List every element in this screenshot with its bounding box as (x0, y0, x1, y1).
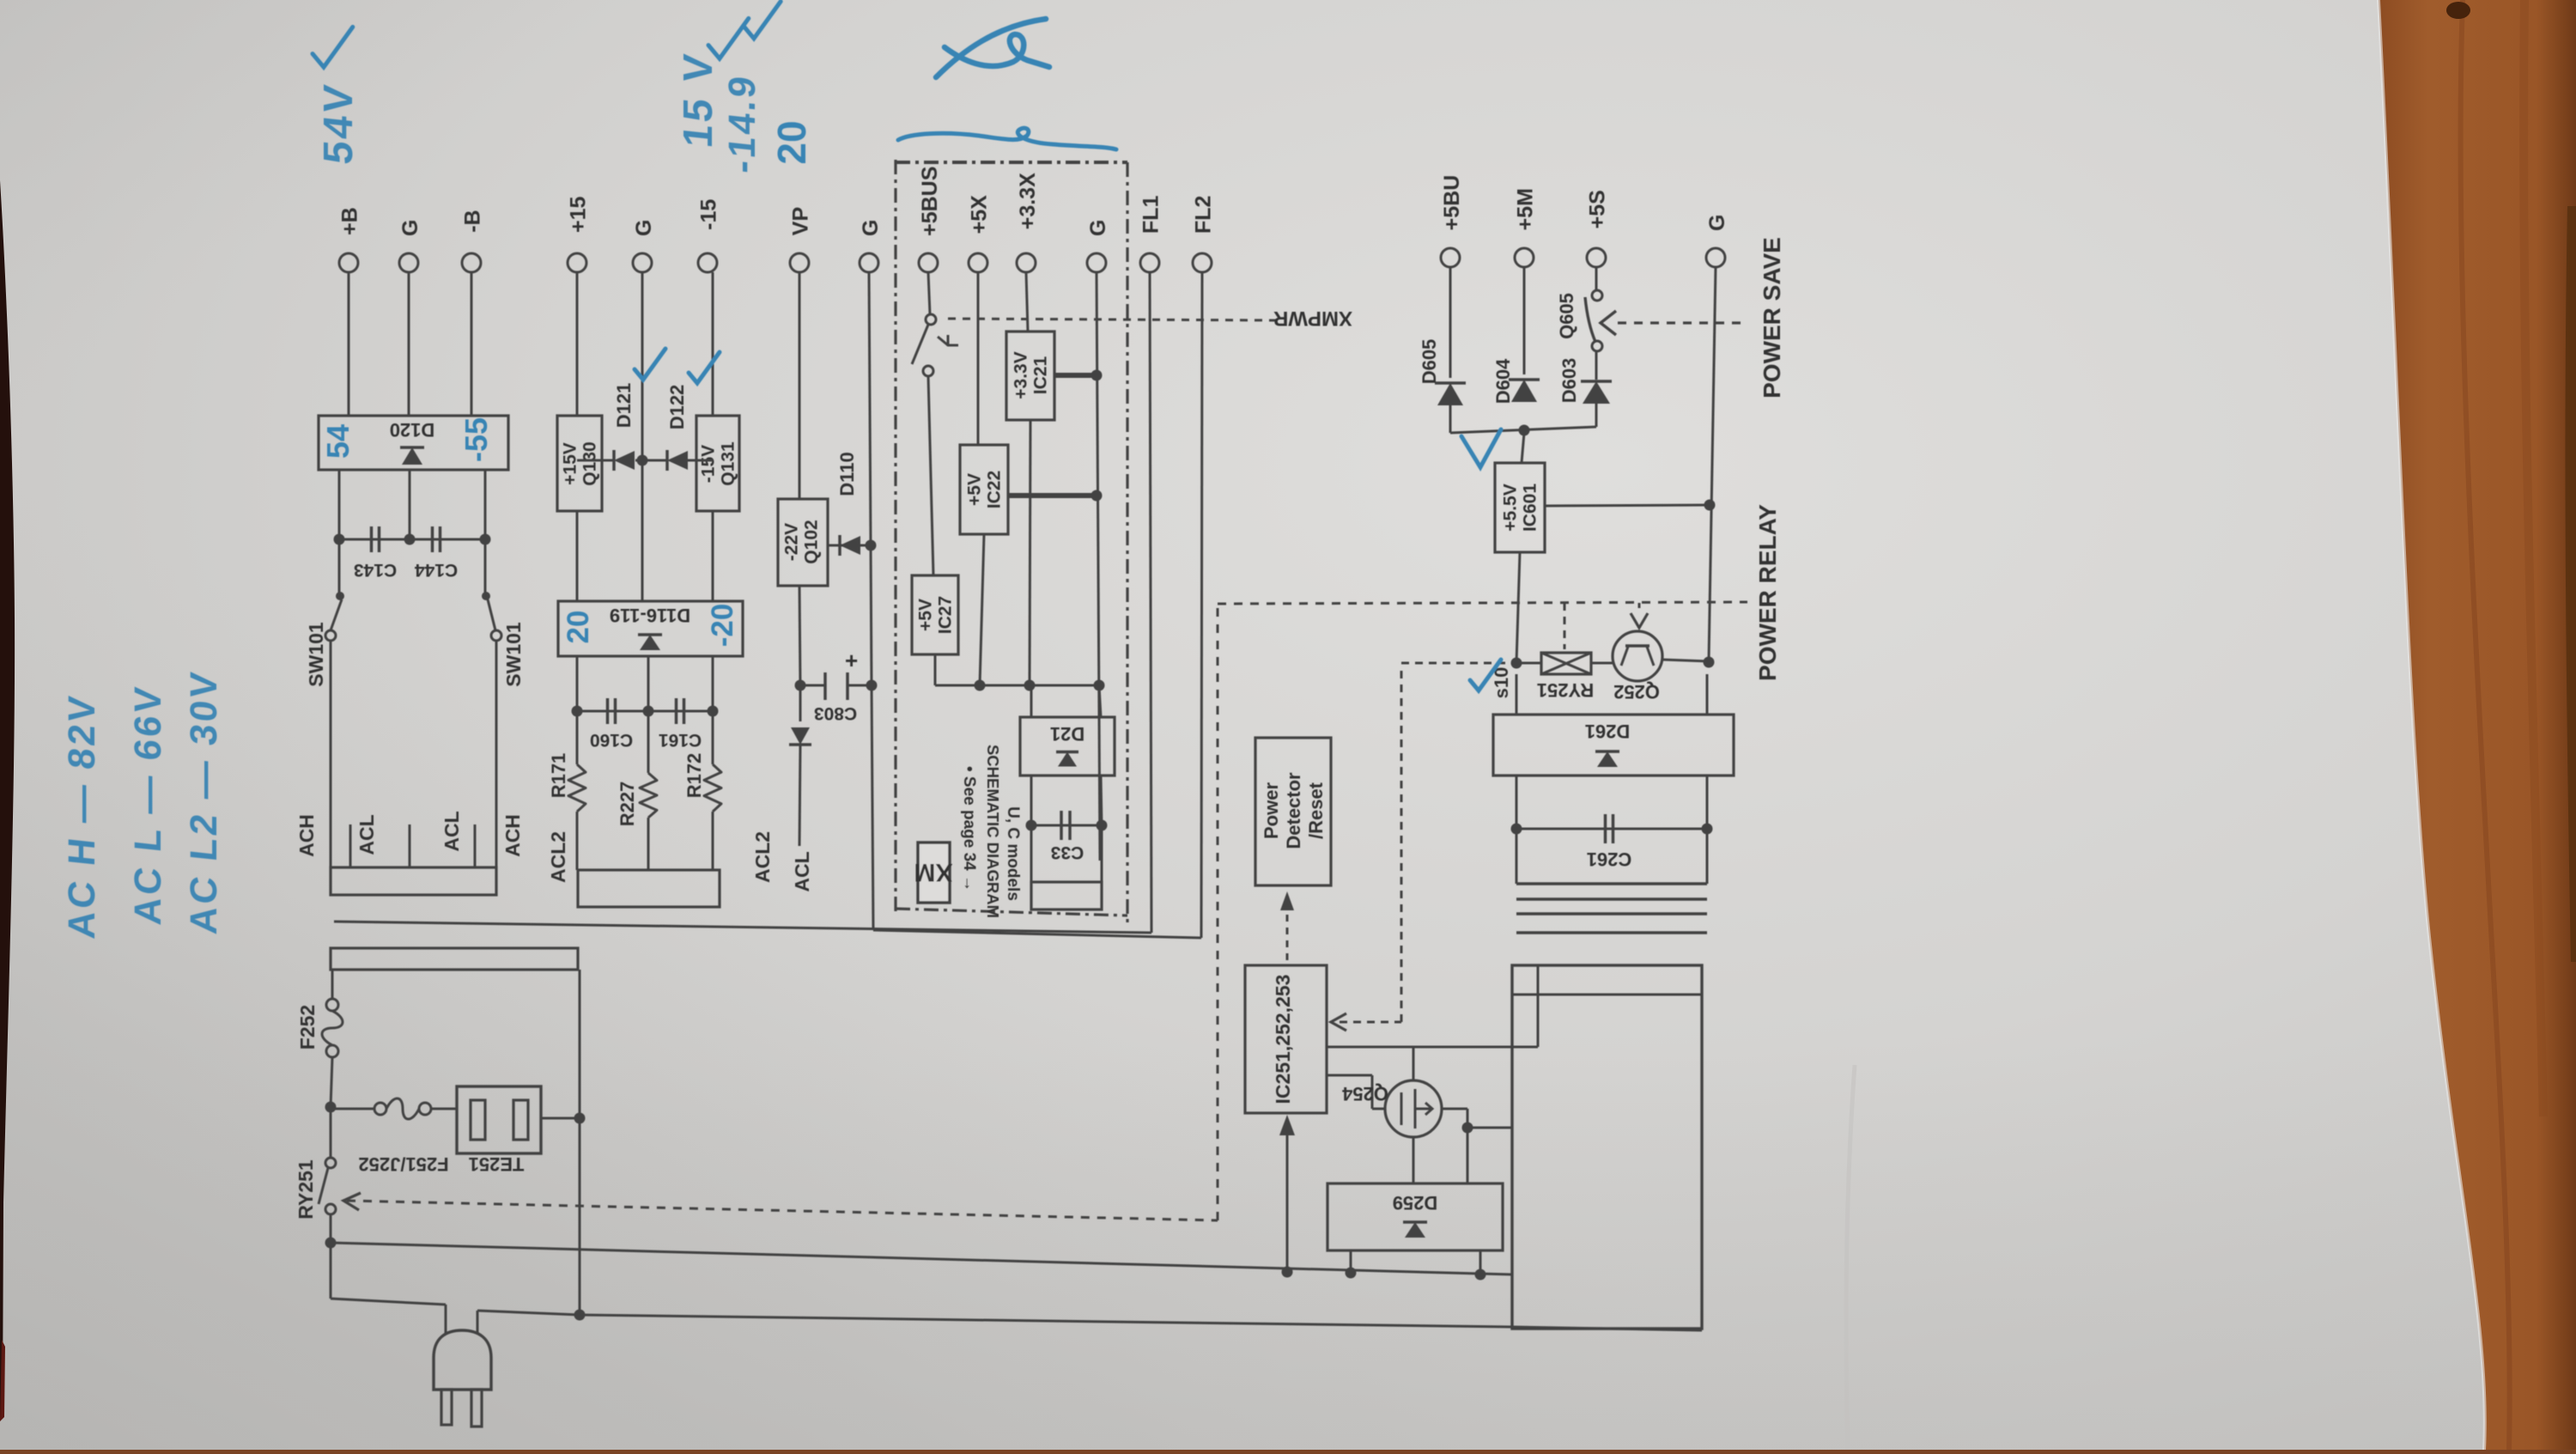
wire IC21 down to bus (1030, 420, 1030, 685)
svg-text:D122: D122 (666, 385, 688, 430)
svg-text:D120: D120 (390, 419, 435, 441)
svg-text:Detector: Detector (1283, 772, 1304, 849)
svg-text:XMPWR: XMPWR (1273, 307, 1352, 330)
capacitor bus C160 C161 (577, 710, 713, 713)
svg-text:20: 20 (769, 120, 814, 164)
handwritten check above 54V (313, 27, 353, 67)
svg-text:+B: +B (338, 207, 362, 235)
svg-text:C33: C33 (1051, 843, 1084, 862)
G line inside XM (1097, 272, 1100, 861)
svg-text:15 V: 15 V (675, 50, 721, 149)
wire +5X to IC22 (977, 272, 980, 445)
bus wire at IC27 IC22 IC21 outputs (935, 684, 1099, 687)
terminal +5BUS (919, 253, 938, 272)
wire IC22 to bus (980, 534, 984, 685)
svg-text:+5V: +5V (916, 599, 936, 631)
svg-text:ACH: ACH (501, 814, 524, 857)
svg-text:Q131: Q131 (719, 441, 738, 486)
relay switch RY251 (330, 1107, 332, 1158)
arrow from AC rail into IC251 (1286, 1118, 1289, 1272)
terminal +5M (1515, 248, 1534, 267)
resistor R171 (576, 711, 579, 764)
handwritten flourish stroke 2 (898, 128, 1116, 149)
terminal G (860, 253, 878, 272)
riser to lower rail (579, 1118, 581, 1315)
capacitor C160 (606, 698, 610, 724)
svg-text:+5S: +5S (1585, 190, 1609, 228)
svg-text:-22V: -22V (782, 523, 802, 561)
svg-text:Q254: Q254 (1341, 1083, 1388, 1104)
svg-text:SCHEMATIC DIAGRAM: SCHEMATIC DIAGRAM (984, 745, 1002, 918)
svg-text:D259: D259 (1393, 1192, 1438, 1214)
svg-text:-15V: -15V (699, 445, 719, 483)
wire FL1 down (1150, 272, 1151, 933)
diode D122 (667, 451, 688, 470)
XM boundary dash-dot left edge (894, 160, 896, 915)
thick link IC21 to G (1054, 373, 1097, 378)
long AC rail B into transformer (580, 1315, 1512, 1327)
wire Q130 to D116-119 box (576, 511, 579, 601)
svg-text:+3.3V: +3.3V (1012, 351, 1031, 398)
wire down to Q254 top (1413, 1047, 1415, 1080)
svg-text:C261: C261 (1587, 849, 1632, 870)
wire bus to D21 box left (1030, 685, 1033, 717)
wire relay row (1516, 662, 1541, 665)
svg-text:POWER SAVE: POWER SAVE (1759, 237, 1785, 398)
svg-text:20: 20 (562, 611, 595, 644)
wire IC27 to bus (934, 654, 937, 685)
svg-text:/Reset: /Reset (1305, 782, 1327, 839)
box Power Detector Reset (1255, 738, 1331, 885)
handwritten check above -14.9 (744, 2, 781, 39)
switch Q605 (1592, 290, 1602, 301)
terminal FL2 (1193, 253, 1212, 272)
rectifier box D261 (1493, 715, 1734, 776)
svg-text:D605: D605 (1419, 339, 1440, 385)
svg-text:D604: D604 (1492, 358, 1514, 404)
wire D603 down (1595, 404, 1598, 427)
wire F252 to junction (331, 1057, 332, 1107)
svg-text:U, C models: U, C models (1004, 806, 1022, 901)
wire RY251 to rail A (330, 1214, 332, 1243)
svg-text:G: G (632, 220, 656, 236)
terminal +5X (969, 253, 987, 272)
wire G to D21 box right (1099, 685, 1101, 717)
transistor Q252 (1613, 631, 1662, 681)
wood grain streaks (2461, 0, 2510, 1450)
svg-text:G: G (398, 220, 422, 236)
transformer inner line (1512, 994, 1702, 996)
svg-text:FL2: FL2 (1191, 196, 1215, 234)
svg-text:AC H — 82V: AC H — 82V (61, 692, 103, 940)
wire switch to IC27 (928, 376, 933, 575)
junction node at C143 left (334, 534, 345, 545)
svg-text:TE251: TE251 (469, 1153, 525, 1175)
electrolytic capacitor C803 (795, 680, 806, 691)
svg-text:+15V: +15V (561, 442, 580, 485)
wire IC601 output down to relay (1516, 552, 1520, 663)
long AC rail A into transformer (331, 1243, 1512, 1275)
dark table edge strip far right (2565, 206, 2576, 962)
svg-text:D603: D603 (1558, 358, 1580, 404)
svg-text:G: G (1705, 215, 1729, 231)
diode on ACL feed below C803 (799, 685, 802, 721)
wire switch to D603 (1595, 351, 1598, 380)
svg-text:D21: D21 (1050, 723, 1084, 745)
terminal FL1 (1140, 253, 1159, 272)
svg-text:C160: C160 (590, 730, 633, 750)
svg-text:R171: R171 (548, 753, 569, 799)
ACL feed wires into filter (349, 824, 352, 867)
terminal +B (339, 253, 358, 272)
wire G to D120 box (408, 272, 410, 416)
wire SW101 pole A to AC inlet filter (330, 641, 332, 867)
arrow into Q252 from dashed (1631, 613, 1648, 628)
wires D21 box to C33 (1030, 776, 1033, 825)
switch SW101 pole A (338, 539, 341, 593)
handwritten check for D122 (689, 352, 720, 383)
svg-text:Q252: Q252 (1613, 681, 1660, 703)
wires D261 to C261 (1516, 776, 1518, 829)
capacitor C261 bus (1516, 828, 1707, 830)
diode D603 (1583, 381, 1610, 404)
svg-text:SW101: SW101 (502, 622, 525, 687)
regulator box IC22 +5V (960, 445, 1008, 534)
svg-text:+5BUS: +5BUS (918, 167, 942, 236)
svg-text:F252: F252 (296, 1005, 319, 1049)
wires C261 to transformer windings (1516, 829, 1518, 884)
svg-text:54V: 54V (315, 81, 361, 167)
diode box D259 (1327, 1183, 1503, 1250)
XMPWR dashed control line (948, 319, 1277, 320)
wire Q102 down to C803 level (799, 586, 800, 685)
terminal +3.3X (1017, 253, 1036, 272)
svg-text:+15: +15 (566, 196, 590, 233)
wire IC251 to Q254 drain line (1327, 1046, 1538, 1049)
handwritten check at IC601 (1461, 429, 1501, 467)
svg-text:R172: R172 (683, 753, 705, 799)
junction node at C144 right (480, 534, 491, 545)
fuse F251 J252 horizontal (331, 1108, 374, 1110)
svg-text:C144: C144 (415, 560, 459, 580)
diode D604 (1511, 380, 1537, 402)
wire G line to bottom rail (872, 685, 873, 930)
wire +5M to IC601 (1522, 433, 1524, 463)
dashed feedback into IC251 right edge (1340, 1021, 1401, 1024)
svg-text:D116-119: D116-119 (610, 605, 690, 626)
protection box D21 (1020, 717, 1115, 776)
XM label box (918, 843, 950, 903)
long AC rail to FL2 (873, 930, 1201, 938)
regulator box IC21 +3.3V (1006, 332, 1054, 420)
wire Q254 right to junction (1442, 1108, 1467, 1110)
svg-text:RY251: RY251 (1537, 679, 1594, 701)
box IC251 252 253 (1245, 965, 1327, 1113)
svg-text:ACH: ACH (295, 814, 318, 857)
svg-text:C143: C143 (354, 560, 397, 580)
dashed branch to Q252 (1638, 603, 1641, 611)
svg-text:Power: Power (1261, 782, 1282, 839)
diode D110 on stub to G line (828, 544, 872, 547)
capacitor C143 (370, 526, 374, 552)
wire inlet to fuse F252 (331, 970, 334, 999)
connector box under R227 (578, 870, 720, 907)
wire D120 box to C144 junction (G) (409, 470, 411, 539)
wire +5BUS to switch (928, 272, 930, 314)
terminal +5S (1587, 248, 1606, 267)
svg-text:Q102: Q102 (802, 520, 822, 563)
wire VP to Q102 (799, 272, 801, 499)
svg-text:C803: C803 (814, 703, 857, 723)
svg-text:VP: VP (789, 207, 813, 235)
svg-text:54: 54 (320, 424, 355, 459)
XM boundary dash-dot bottom edge (896, 909, 1127, 916)
terminal -B (462, 253, 481, 272)
connector box D120 (319, 416, 508, 470)
wire plug right to rail B (477, 1311, 479, 1333)
svg-text:R227: R227 (617, 782, 638, 827)
regulator box Q131 -15V (696, 416, 739, 511)
svg-text:Q605: Q605 (1556, 293, 1577, 339)
wire +15 to Q130 (576, 272, 579, 416)
paper crease bottom right (1846, 1065, 1855, 1450)
AC plug (434, 1330, 491, 1390)
svg-text:D121: D121 (613, 383, 635, 429)
G line right (1709, 267, 1716, 661)
terminal G (1087, 253, 1106, 272)
svg-text:F251/J252: F251/J252 (358, 1153, 448, 1175)
diode D120 symbol (402, 447, 422, 465)
regulator box Q130 +15V (557, 416, 602, 511)
svg-text:-20: -20 (706, 604, 739, 648)
wooden desk visible at right edge (2379, 0, 2576, 1450)
long AC rail to FL1 (334, 922, 1151, 933)
wire D120 box to SW101 right pole (484, 470, 487, 539)
svg-text:+5X: +5X (967, 195, 991, 234)
svg-text:IC251,252,253: IC251,252,253 (1272, 975, 1294, 1104)
svg-text:IC601: IC601 (1521, 484, 1540, 532)
svg-text:ACL: ACL (791, 851, 813, 891)
wire SW101 pole B to AC inlet filter (495, 641, 498, 867)
wire G to diode junction (641, 272, 644, 601)
capacitor bus wire C143 C144 (339, 538, 485, 541)
svg-text:-15: -15 (696, 199, 720, 230)
paper edge highlight right (2379, 0, 2485, 1450)
wire +5BU to D605 (1449, 267, 1452, 378)
handwritten flourish stroke 1 (936, 19, 1049, 77)
svg-text:IC27: IC27 (936, 596, 956, 634)
dark desk sliver left edge (0, 180, 15, 1421)
wire junction to transformer (1467, 1127, 1512, 1129)
wire G line upper (869, 272, 871, 545)
svg-text:Q130: Q130 (580, 441, 600, 485)
rectifier box D116-119 (558, 601, 743, 656)
transformer winding bars (1516, 882, 1707, 885)
junction dots on G line (1091, 370, 1103, 381)
svg-text:+5BU: +5BU (1440, 175, 1464, 231)
svg-text:• See page 34 →: • See page 34 → (960, 766, 978, 891)
AC line filter block (331, 867, 496, 895)
diode D605 (1437, 383, 1463, 405)
riser from AC inlet right (579, 970, 581, 1118)
fuse F252 (326, 999, 338, 1011)
svg-text:G: G (859, 220, 883, 236)
wire -15 to Q131 (712, 272, 714, 416)
svg-text:RY251: RY251 (295, 1159, 317, 1220)
tap IC601 to G line (1545, 505, 1710, 506)
svg-text:ACL: ACL (355, 814, 378, 855)
wire G line to C803 (871, 545, 872, 685)
dashed arrow at RY251 (343, 1193, 361, 1210)
capacitor C33 (1031, 824, 1102, 827)
terminal -15 (698, 253, 717, 272)
terminal +15 (568, 253, 586, 272)
switch SW101 pole B (484, 539, 487, 593)
svg-text:IC21: IC21 (1031, 356, 1051, 395)
stub D259 to rail left (1350, 1250, 1352, 1273)
svg-text:ACL2: ACL2 (547, 831, 569, 883)
svg-text:ACL: ACL (440, 811, 463, 851)
svg-text:D261: D261 (1585, 721, 1631, 742)
svg-text:+5M: +5M (1513, 188, 1537, 230)
svg-text:SW101: SW101 (305, 622, 327, 687)
terminal +5BU (1441, 248, 1460, 267)
resistor R172 (712, 711, 714, 764)
thick link IC22 to G (1008, 493, 1097, 498)
svg-text:G: G (1086, 220, 1110, 236)
dashed branch to RY251 coil (1564, 603, 1566, 649)
handwritten check for D121 (635, 349, 665, 380)
wire Q254 source down (1413, 1137, 1415, 1183)
svg-text:IC22: IC22 (985, 471, 1005, 508)
terminal VP (790, 253, 809, 272)
wire -B to D120 box (471, 272, 473, 416)
svg-text:AC L2 — 30V: AC L2 — 30V (183, 668, 225, 936)
XMPWR dashed arrow at switch (938, 337, 948, 345)
svg-text:POWER RELAY: POWER RELAY (1754, 504, 1781, 681)
svg-text:-14.9: -14.9 (721, 72, 763, 175)
wire +3.3X to IC21 (1026, 272, 1028, 332)
terminal G (633, 253, 652, 272)
wire to plug left (330, 1243, 332, 1299)
junction node between C143 and C144 (404, 534, 416, 545)
terminal G (1706, 248, 1725, 267)
resistor R227 (647, 711, 650, 773)
relay coil RY251 (1541, 653, 1591, 674)
AC inlet block (331, 948, 578, 970)
diode D121 (614, 451, 635, 470)
stub D259 to rail right (1479, 1250, 1482, 1275)
terminal block TE251 (457, 1086, 541, 1153)
wire up to transformer (1537, 965, 1540, 1047)
wood knot top right (2446, 2, 2470, 19)
svg-text:-55: -55 (459, 417, 494, 462)
diode chain wire D121 D122 (577, 459, 613, 462)
connector bar bottom of XM (1031, 882, 1102, 910)
capacitor C144 (431, 526, 434, 552)
wires C33 to connector bar (1030, 825, 1033, 882)
junction dot D110 at G line (866, 540, 877, 551)
transistor Q254 FET (1385, 1080, 1442, 1137)
XM boundary dash-dot top edge (896, 161, 1127, 164)
svg-text:+5.5V: +5.5V (1501, 484, 1521, 531)
relay control dashed rectangle (347, 1201, 1218, 1220)
wire Q131 to D116-119 box (712, 511, 714, 601)
svg-text:+5V: +5V (965, 473, 985, 506)
gate wire IC251 to Q254 (1327, 1074, 1372, 1077)
regulator box Q102 -22V (778, 499, 828, 586)
wires D116-119 to C160 C161 bus (576, 656, 579, 711)
transformer body box (1512, 965, 1702, 1329)
capacitor C161 (675, 698, 678, 724)
handwritten check at s10 (1470, 660, 1501, 690)
svg-text:D110: D110 (836, 452, 858, 496)
wire FL2 down (1201, 272, 1202, 938)
svg-text:+3.3X: +3.3X (1016, 173, 1040, 229)
POWER SAVE dashed line (1618, 321, 1747, 324)
svg-text:C161: C161 (659, 730, 702, 750)
handwritten check above 15V (708, 18, 749, 58)
wire +B to D120 box (348, 272, 350, 416)
junction dot G diode chain (637, 455, 648, 466)
diode bus wire (1450, 427, 1596, 433)
svg-text:-B: -B (461, 210, 485, 232)
dashed link IC251 to Power Detector with up arrow (1286, 902, 1289, 965)
wire +5M to D604 (1523, 267, 1526, 374)
wires relay row to D261 (1516, 674, 1518, 715)
XM boundary dash-dot right edge (1126, 162, 1128, 924)
terminal G (399, 253, 418, 272)
wire D120 box to C143 junction (338, 470, 341, 539)
svg-text:+: + (845, 648, 858, 673)
wire fuse to TE251 (431, 1108, 457, 1110)
regulator box IC27 +5V (912, 575, 958, 654)
switch on +5BUS line (926, 314, 936, 325)
svg-text:ACL2: ACL2 (751, 831, 774, 883)
wire TE251 to right riser (541, 1117, 580, 1120)
svg-text:XM: XM (914, 858, 953, 886)
svg-text:FL1: FL1 (1139, 195, 1163, 234)
diode symbol in D116-119 (640, 635, 660, 650)
wire D605 to bus (1449, 405, 1452, 433)
wire +5S to switch Q605 (1595, 267, 1598, 290)
svg-text:AC L — 66V: AC L — 66V (127, 683, 169, 927)
regulator box IC601 +5.5V (1495, 463, 1545, 552)
